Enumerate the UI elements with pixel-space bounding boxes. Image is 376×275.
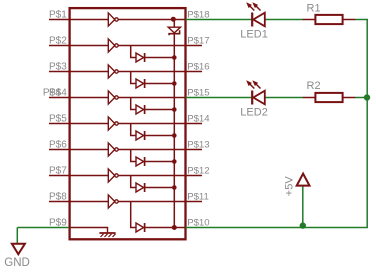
pin P$9 internal wire [69,227,108,229]
pin P$14 (right stub) [186,123,203,125]
pin P$8 (left, row 8) [49,201,108,203]
flyback diode channel 5 [131,124,136,136]
LED LED1 emission arrows [249,5,255,11]
wire: bus to pin P$10 [174,227,185,229]
pin P$1 (left, row 1) [49,19,108,21]
pin P$17 (right stub) [186,45,203,47]
inverter bubble channel 3 [115,70,118,73]
pin P$16 (right stub) [186,71,203,73]
svg-text:LED1: LED1 [240,29,268,41]
wire: R2 to right rail [355,97,368,99]
svg-text:P$1: P$1 [49,10,67,21]
flyback diode channel 2 [131,46,136,58]
wire: channel 3 output to right pin [118,71,185,73]
wire: channel 8 output to right pin [118,201,185,203]
svg-text:P$4: P$4 [49,88,67,99]
junction on bus [172,81,177,86]
svg-text:GND: GND [4,257,30,269]
wire: right vertical rail [366,20,368,228]
wire: channel 7 output to right pin [118,175,185,177]
inverter bubble channel 8 [115,200,118,203]
internal common bus wire [173,20,175,28]
wire: channel 5 output to right pin [118,123,185,125]
svg-text:P$3: P$3 [49,62,67,73]
GND symbol [12,244,25,254]
wire: channel 4 output to right pin [118,97,185,99]
junction on bus [172,133,177,138]
pin P$12 (right stub) [186,175,203,177]
pin P$2 (left, row 2) [49,45,108,47]
driver triangle channel 3 [108,65,115,78]
junction on bus at row 1 [171,17,176,22]
driver triangle channel 8 [108,195,115,208]
flyback diode channel 4 [131,98,136,110]
junction on bus [172,107,177,112]
junction on bus [172,159,177,164]
flyback diode channel 3 [131,72,136,84]
svg-text:P$5: P$5 [49,114,67,125]
pin P$11 (right stub) [186,201,203,203]
driver triangle channel 6 [108,143,115,156]
wire: +5V supply drop [302,186,304,228]
driver triangle channel 1 [108,13,115,26]
junction: R2 net / right rail [364,94,370,100]
svg-text:R1: R1 [307,2,321,14]
+5V supply symbol [297,174,310,186]
resistor R2 leads [303,97,316,99]
junction on bus [172,185,177,190]
wire: channel 2 output to right pin [118,45,185,47]
driver triangle channel 2 [108,39,115,52]
pin P$3 (left, row 3) [49,71,108,73]
flyback diode channel 6 [131,150,136,162]
pin P$5 (left, row 5) [49,123,108,125]
svg-text:R2: R2 [307,80,321,92]
driver triangle channel 7 [108,169,115,182]
LED LED1 cathode bar [251,13,253,27]
wire: channel 6 output to right pin [118,149,185,151]
LED LED2 cathode bar [251,91,253,105]
junction on bus [172,55,177,60]
pin P$7 (left, row 7) [49,175,108,177]
wire: P$10 to right rail [186,227,368,229]
zener diode D9 (COM clamp) [168,27,180,33]
pin P$6 (left, row 6) [49,149,108,151]
junction: +5V / P$10 net [300,222,306,228]
inverter bubble channel 2 [115,44,118,47]
inverter bubble channel 7 [115,174,118,177]
svg-text:P$2: P$2 [49,36,67,47]
resistor R2 body [315,93,342,102]
inverter bubble channel 1 [115,18,118,21]
inverter bubble channel 6 [115,148,118,151]
flyback diode channel 7 [131,176,136,188]
wire: P$9 to GND [17,227,69,229]
driver triangle channel 5 [108,117,115,130]
wire: LED2 to R2 [265,97,303,99]
wire: P$18 to LED1 [186,19,252,21]
svg-text:LED2: LED2 [240,107,268,119]
driver triangle channel 4 [108,91,115,104]
resistor R1 leads [303,19,316,21]
LED LED2 emission arrows [249,83,255,89]
svg-text:P$8: P$8 [49,192,67,203]
svg-text:P$7: P$7 [49,166,67,177]
LED LED2 triangle [253,91,264,105]
inverter bubble channel 4 [115,96,118,99]
wire: R1 to right rail [355,19,368,21]
svg-text:+5V: +5V [284,176,296,197]
wire: P$15 to LED2 [186,97,252,99]
wire: LED1 to R1 [265,19,303,21]
flyback diode channel 8 [131,202,136,228]
pin P$4 (left, row 4) [49,97,108,99]
internal ground symbol (pin 9) [107,228,109,234]
junction on bus at P$10 row [172,225,177,230]
IC box U1 (ULN2803 outline) [70,8,186,239]
inverter bubble channel 5 [115,122,118,125]
pin P$13 (right stub) [186,149,203,151]
resistor R1 body [315,15,342,24]
wire: channel 1 output to right pin [118,19,185,21]
svg-text:P$6: P$6 [49,140,67,151]
LED LED1 triangle [253,13,264,27]
